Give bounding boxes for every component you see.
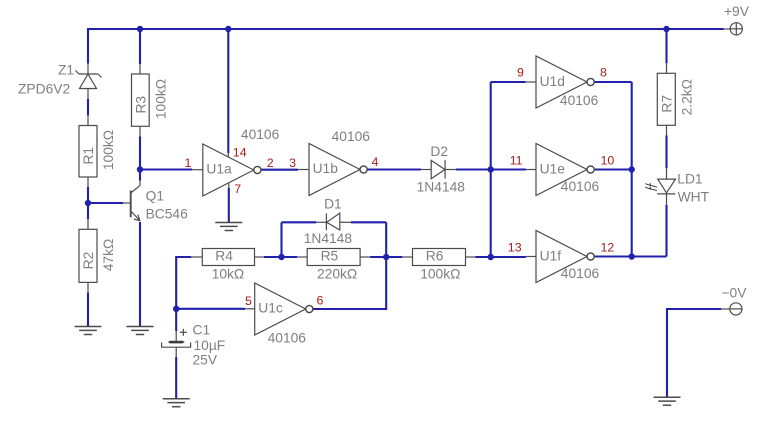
pin R2 bbox=[87, 219, 89, 229]
svg-text:13: 13 bbox=[508, 241, 522, 255]
wire U1a pin14 to rail bbox=[227, 29, 229, 153]
svg-text:10: 10 bbox=[601, 154, 615, 168]
wire R5 to R6 node bbox=[370, 256, 402, 258]
wire U1b output to D2 bbox=[367, 168, 421, 170]
pin Q1 base bbox=[123, 202, 130, 204]
pin D2 cathode bbox=[445, 169, 456, 171]
wire R4 to R5 node bbox=[264, 256, 297, 258]
svg-text:1N4148: 1N4148 bbox=[304, 231, 353, 246]
wire R7 to LED bbox=[665, 136, 667, 169]
svg-text:40106: 40106 bbox=[268, 331, 307, 346]
svg-text:C1: C1 bbox=[193, 323, 211, 338]
svg-text:11: 11 bbox=[510, 154, 523, 168]
wire C1 to ground bbox=[175, 357, 177, 399]
svg-text:U1a: U1a bbox=[206, 162, 232, 177]
svg-text:8: 8 bbox=[600, 66, 607, 80]
capacitor C1 bbox=[162, 329, 191, 347]
pin U1b input bbox=[298, 169, 309, 171]
pin R1 bbox=[87, 116, 89, 126]
svg-text:40106: 40106 bbox=[560, 93, 599, 108]
svg-text:12: 12 bbox=[601, 241, 615, 255]
wire R6 to U1f input bbox=[476, 256, 526, 258]
svg-text:U1b: U1b bbox=[313, 161, 339, 176]
wire U1a output to U1b input bbox=[261, 169, 298, 171]
svg-text:40106: 40106 bbox=[332, 129, 371, 144]
resistor R1 bbox=[79, 126, 97, 178]
svg-text:D1: D1 bbox=[324, 196, 342, 211]
wire node B up to D1 bbox=[385, 222, 387, 257]
pin U1a input bbox=[192, 169, 203, 171]
wire R4 left to C1 node bbox=[176, 257, 191, 309]
wire C1 node to U1c input bbox=[176, 308, 245, 310]
svg-text:R6: R6 bbox=[426, 249, 444, 264]
pin R7 bbox=[666, 63, 668, 73]
svg-text:BC546: BC546 bbox=[146, 207, 189, 222]
svg-text:2.2kΩ: 2.2kΩ bbox=[680, 79, 695, 115]
wire U1e output to right bus bbox=[595, 168, 632, 170]
svg-text:R1: R1 bbox=[81, 147, 96, 165]
svg-text:47kΩ: 47kΩ bbox=[101, 239, 116, 272]
svg-text:R2: R2 bbox=[81, 252, 96, 270]
node bus U1e in bbox=[488, 166, 494, 172]
svg-text:R7: R7 bbox=[660, 95, 675, 113]
svg-text:4: 4 bbox=[372, 155, 379, 169]
wire +9V rail bbox=[88, 29, 724, 64]
resistor R7 bbox=[657, 73, 675, 125]
pin Z1 bottom bbox=[87, 89, 89, 100]
svg-text:10kΩ: 10kΩ bbox=[212, 267, 245, 282]
resistor R6 bbox=[413, 249, 466, 266]
pin D1 anode bbox=[340, 221, 351, 223]
wire -0V to ground bbox=[667, 309, 721, 397]
wire R3 to collector node bbox=[139, 136, 141, 169]
svg-text:U1d: U1d bbox=[540, 74, 565, 89]
svg-text:ZPD6V2: ZPD6V2 bbox=[18, 82, 70, 97]
supply +9V bbox=[730, 23, 742, 35]
wire Q1 emitter to ground bbox=[139, 222, 141, 327]
svg-text:1: 1 bbox=[185, 156, 192, 170]
wire LED column up to LED bbox=[665, 205, 667, 257]
svg-text:40106: 40106 bbox=[561, 266, 600, 281]
op-amp U1c bbox=[255, 283, 313, 335]
svg-text:Q1: Q1 bbox=[146, 189, 164, 204]
svg-text:R5: R5 bbox=[321, 249, 339, 264]
node rail pin14 bbox=[225, 26, 231, 32]
node bus U1f in bbox=[488, 254, 494, 260]
wire base node to R2 bbox=[87, 203, 89, 219]
pin -0V bbox=[721, 308, 730, 310]
op-amp U1e bbox=[536, 144, 594, 196]
pin D2 anode bbox=[421, 169, 431, 171]
diode D2 bbox=[431, 160, 445, 179]
pin U1f input bbox=[526, 256, 536, 258]
svg-text:220kΩ: 220kΩ bbox=[317, 267, 357, 282]
pin R5 bbox=[297, 256, 307, 258]
pin D1 cathode bbox=[316, 221, 326, 223]
svg-text:R4: R4 bbox=[215, 249, 233, 264]
wire rail to R3 bbox=[139, 29, 141, 64]
svg-text:D2: D2 bbox=[430, 144, 448, 159]
zener Z1 bbox=[76, 71, 102, 89]
pin LD1 bbox=[666, 168, 668, 179]
pin U1c input bbox=[245, 308, 255, 310]
pin U1a 7 bbox=[228, 184, 230, 189]
svg-text:WHT: WHT bbox=[678, 190, 710, 205]
node R4 R5 bbox=[278, 254, 284, 260]
op-amp U1b bbox=[309, 144, 367, 196]
node rail R3 bbox=[137, 26, 143, 32]
pin U1d input bbox=[526, 81, 536, 83]
svg-text:5: 5 bbox=[245, 294, 252, 308]
wire rail to R7 bbox=[665, 29, 667, 63]
resistor R2 bbox=[79, 229, 97, 282]
resistor R5 bbox=[307, 249, 360, 266]
wire output bus right bbox=[631, 82, 633, 257]
wire bus to U1d input bbox=[491, 81, 526, 83]
svg-text:9: 9 bbox=[517, 66, 524, 80]
node bus U1f out bbox=[629, 253, 635, 259]
svg-text:6: 6 bbox=[317, 294, 324, 308]
node C1 top bbox=[173, 306, 179, 312]
pin R6 bbox=[402, 256, 412, 258]
svg-text:LD1: LD1 bbox=[677, 171, 702, 186]
svg-text:7: 7 bbox=[234, 182, 241, 196]
wire U1c output to node B bbox=[313, 257, 386, 309]
svg-text:Z1: Z1 bbox=[58, 63, 74, 78]
ground R2 bbox=[75, 327, 102, 335]
svg-text:2: 2 bbox=[267, 156, 274, 170]
ground Q1 emitter bbox=[127, 327, 154, 335]
transistor Q1 bbox=[131, 181, 140, 221]
node R5 R6 bbox=[383, 254, 389, 260]
wire R1 to base node bbox=[87, 187, 89, 203]
svg-text:40106: 40106 bbox=[241, 127, 280, 142]
wire collector node to Q1 collector bbox=[139, 170, 141, 181]
wire D2 to node E bbox=[456, 168, 526, 170]
wire node A up to D1 bbox=[280, 222, 282, 257]
svg-text:+9V: +9V bbox=[724, 4, 750, 19]
svg-text:14: 14 bbox=[233, 145, 247, 159]
pin U1e input bbox=[526, 169, 536, 171]
svg-text:−0V: −0V bbox=[722, 285, 748, 300]
svg-text:100kΩ: 100kΩ bbox=[101, 130, 116, 170]
LED LD1 bbox=[645, 179, 675, 194]
wire Z1 to R1 bbox=[87, 99, 89, 116]
diode D1 bbox=[326, 213, 339, 230]
node collector bbox=[137, 166, 143, 172]
ground U1a pin7 bbox=[215, 223, 242, 231]
svg-text:100kΩ: 100kΩ bbox=[154, 79, 169, 119]
pin +9V bbox=[724, 28, 730, 30]
pin R4 bbox=[191, 256, 202, 258]
svg-text:100kΩ: 100kΩ bbox=[420, 267, 460, 282]
wire U1a pin7 to ground bbox=[228, 188, 230, 222]
svg-text:3: 3 bbox=[289, 156, 296, 170]
svg-text:40106: 40106 bbox=[561, 179, 600, 194]
pin C1 bbox=[175, 331, 177, 341]
wire R2 to ground bbox=[87, 292, 89, 326]
wire U1f output to LED column bbox=[595, 255, 667, 257]
ground -0V bbox=[654, 397, 681, 405]
node rail R7 bbox=[663, 26, 669, 32]
node bus U1e out bbox=[629, 166, 635, 172]
resistor R3 bbox=[132, 74, 150, 126]
wire input bus left bbox=[490, 82, 492, 257]
svg-text:R3: R3 bbox=[134, 96, 149, 114]
svg-text:U1c: U1c bbox=[258, 301, 283, 316]
ground C1 bbox=[163, 399, 190, 407]
svg-text:U1e: U1e bbox=[540, 162, 566, 177]
supply -0V bbox=[730, 303, 742, 315]
op-amp U1f bbox=[536, 231, 594, 283]
svg-text:25V: 25V bbox=[193, 353, 218, 368]
op-amp U1a bbox=[203, 144, 261, 196]
resistor R4 bbox=[202, 249, 254, 266]
wire base node to Q1 base bbox=[88, 202, 123, 204]
wire C1 node down bbox=[175, 309, 177, 331]
svg-text:10µF: 10µF bbox=[194, 338, 226, 353]
wire collector node to U1a input bbox=[140, 168, 192, 170]
svg-text:1N4148: 1N4148 bbox=[417, 179, 466, 194]
node base bbox=[85, 200, 91, 206]
svg-text:U1f: U1f bbox=[540, 249, 562, 264]
pin R3 bbox=[139, 64, 141, 74]
pin Z1 top bbox=[87, 64, 89, 75]
wire D1 left bbox=[282, 221, 317, 223]
op-amp U1d bbox=[536, 56, 594, 108]
wire U1d output to right bus bbox=[595, 81, 632, 83]
pin U1a 14 bbox=[227, 153, 229, 158]
wire D1 right bbox=[351, 221, 386, 223]
